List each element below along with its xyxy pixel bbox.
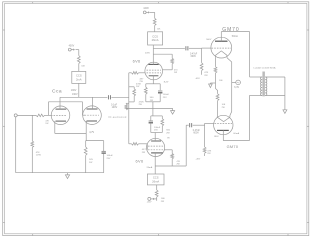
svg-text:400V: 400V	[69, 44, 75, 47]
svg-text:100uF: 100uF	[154, 127, 161, 129]
svg-text:47K: 47K	[204, 72, 208, 74]
svg-text:ID-audiomod: ID-audiomod	[109, 116, 127, 119]
svg-text:26mA: 26mA	[147, 166, 153, 169]
svg-text:100uF: 100uF	[163, 94, 170, 96]
svg-text:0.47uF: 0.47uF	[190, 53, 198, 55]
svg-text:470K: 470K	[136, 83, 142, 85]
svg-text:4,7V: 4,7V	[89, 132, 94, 134]
svg-text:-45V: -45V	[195, 78, 200, 80]
svg-text:26mA: 26mA	[152, 38, 159, 42]
svg-text:2W: 2W	[174, 72, 177, 74]
svg-text:47K: 47K	[36, 152, 40, 154]
svg-text:GM70: GM70	[222, 27, 239, 33]
svg-text:470K: 470K	[139, 101, 145, 103]
svg-text:26mA: 26mA	[152, 179, 159, 183]
svg-text:6V6: 6V6	[133, 59, 141, 64]
svg-text:180V: 180V	[214, 136, 219, 138]
svg-text:25V: 25V	[107, 158, 111, 160]
svg-text:190V: 190V	[71, 89, 77, 92]
svg-text:60mA: 60mA	[233, 132, 239, 135]
svg-text:10E: 10E	[161, 198, 165, 200]
svg-text:Lundahl LL1623 90mA: Lundahl LL1623 90mA	[254, 67, 277, 70]
svg-text:100uF: 100uF	[107, 155, 114, 157]
svg-text:440V: 440V	[143, 7, 149, 10]
svg-text:CCS: CCS	[153, 176, 159, 180]
svg-text:GM70: GM70	[227, 145, 239, 149]
svg-text:25V: 25V	[154, 130, 158, 132]
svg-text:25V: 25V	[163, 97, 167, 99]
svg-text:8,2V: 8,2V	[164, 81, 169, 83]
svg-text:2W: 2W	[222, 107, 225, 109]
svg-text:1W: 1W	[45, 123, 48, 125]
svg-text:2mA: 2mA	[76, 77, 82, 81]
svg-text:Cca: Cca	[52, 89, 62, 95]
svg-text:6V6: 6V6	[136, 159, 144, 164]
svg-text:CCS: CCS	[152, 34, 158, 38]
svg-text:600V: 600V	[193, 133, 199, 135]
svg-text:190V: 190V	[72, 93, 78, 96]
svg-text:2W: 2W	[177, 163, 180, 165]
svg-text:-60V: -60V	[147, 202, 152, 204]
svg-text:CCS: CCS	[76, 74, 82, 78]
svg-text:600V: 600V	[191, 56, 197, 58]
svg-text:100V: 100V	[112, 106, 118, 109]
svg-text:500V: 500V	[206, 39, 212, 41]
svg-text:-45V: -45V	[196, 159, 201, 161]
svg-text:50mA: 50mA	[232, 35, 238, 38]
svg-text:6,3V: 6,3V	[234, 87, 239, 89]
svg-text:205V: 205V	[145, 53, 151, 55]
svg-text:47K: 47K	[207, 150, 211, 152]
svg-text:0.47uF: 0.47uF	[193, 130, 201, 132]
